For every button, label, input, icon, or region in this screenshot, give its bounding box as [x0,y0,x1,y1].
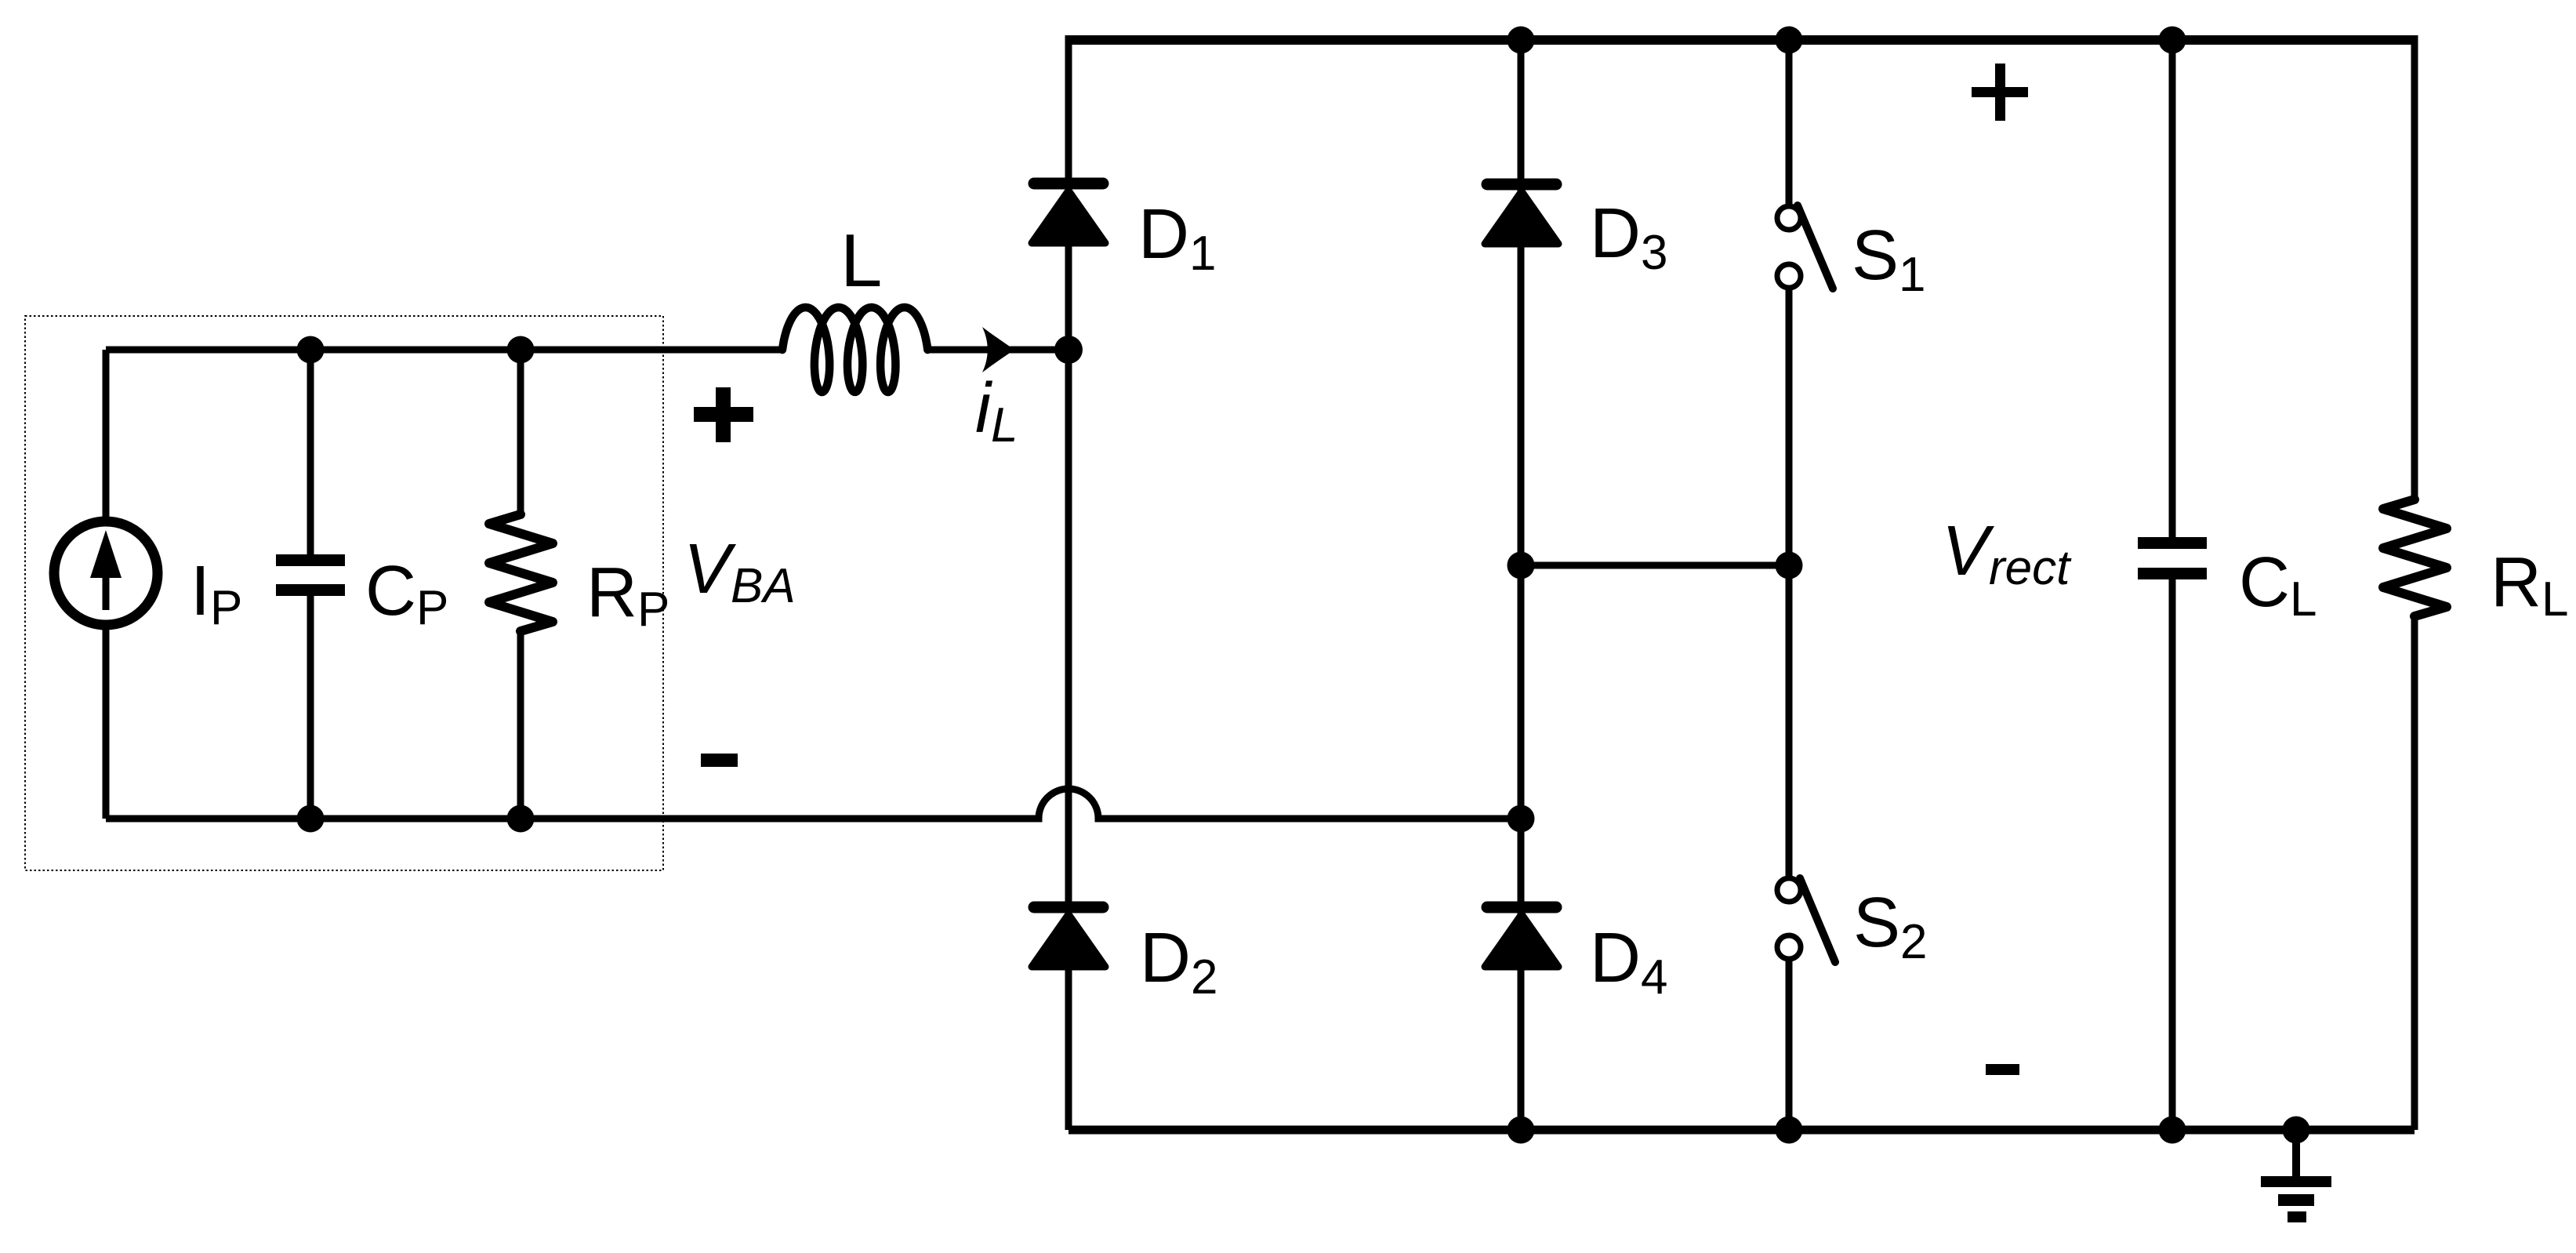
switch S2 [1777,565,1835,1130]
diode D3 [1485,184,1558,244]
capacitor CL [2138,35,2207,1130]
junction dot piezo bottom at RP [507,805,535,833]
wire: inductor output to node A [927,347,1068,354]
wire: current source left branch [103,350,110,523]
wire: mid link leg2 to switch branch [1521,562,1789,569]
junction dot bottom rail CL [2159,1117,2186,1144]
junction dot top rail CL [2159,27,2186,54]
bridge leg 2 vertical wire [1518,35,1525,1130]
diode D2 [1032,907,1105,967]
bottom rail wire [1068,1126,2415,1135]
wire: piezo bottom rail with hop over bridge leg [106,789,1521,819]
junction dot piezo bottom at CP [297,805,325,833]
capacitor CP [276,350,345,819]
wire: piezo top rail from current source to inductor [106,347,782,354]
switch S1 [1777,35,1833,565]
current source IP [54,521,158,625]
junction dot mid link left [1508,552,1535,579]
diode D4 [1485,907,1558,967]
minus sign Vrect [1986,1064,2019,1075]
junction dot top rail S branch [1776,27,1803,54]
bridge leg 1 vertical wire [1065,35,1072,1130]
junction dot node B piezo return [1508,805,1535,833]
svg-text:L: L [840,219,882,303]
top rail wire [1068,35,2415,45]
junction dot piezo top at CP [297,336,325,364]
minus sign VBA [701,754,738,767]
resistor RL [2383,35,2447,1130]
diode D1 [1032,183,1105,243]
plus sign VBA [694,387,753,442]
junction dot bottom rail S branch [1776,1117,1803,1144]
ground [2261,1130,2331,1222]
junction dot piezo top at RP [507,336,535,364]
junction dot ground tap [2283,1117,2310,1144]
junction dot top rail leg2 [1508,27,1535,54]
junction dot bottom rail leg2 [1508,1117,1535,1144]
arrow iL on wire [982,327,1014,372]
inductor L coil [782,307,927,392]
resistor RP [489,350,553,819]
plus sign Vrect [1972,64,2028,121]
junction dot mid link right [1776,552,1803,579]
piezo transducer dashed box [25,316,663,870]
node A junction dot [1054,336,1083,364]
